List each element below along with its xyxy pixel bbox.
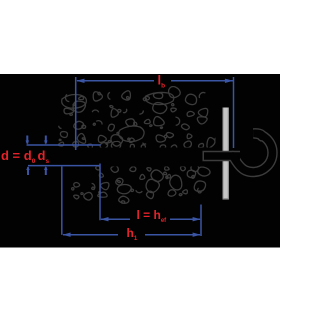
extension line hole bottom (x=61.8) — [61, 167, 63, 235]
anchor shaft (outlined) — [203, 151, 241, 161]
arrow h_ef right — [193, 217, 201, 221]
tick d0 upper — [26, 136, 28, 144]
svg-text:d = d0: d = d0 — [1, 148, 36, 165]
hole top edge line — [27, 144, 101, 146]
arrow d0 upper (down) — [26, 141, 30, 145]
hook (outlined) — [233, 133, 273, 172]
hole bottom edge line — [28, 165, 101, 167]
hook black core — [233, 133, 273, 172]
arrow h_ef left — [100, 217, 108, 221]
extension line left (anchor tip, x=75.7) — [75, 77, 77, 150]
arrow l_b left — [76, 79, 84, 83]
tick ds lower — [45, 167, 47, 175]
arrow ds lower (up) — [44, 166, 48, 170]
arrow h1 left — [63, 233, 71, 237]
arrow d0 lower (up) — [26, 166, 30, 170]
concrete aggregate texture (upper block) — [59, 86, 218, 149]
extension line embedment start (x=100) — [99, 164, 101, 221]
arrow l_b right — [225, 79, 233, 83]
arrow ds upper (down) — [44, 141, 48, 145]
blue arrowheads — [26, 79, 234, 237]
concrete aggregate texture (lower block) — [72, 164, 210, 203]
fixture plate — [223, 108, 229, 200]
blue dimension graphics — [27, 77, 234, 236]
tick ds upper — [45, 136, 47, 144]
dimension line h1 — [63, 234, 118, 236]
extension line right (hook tip, x=233.5) — [233, 77, 235, 148]
black image band — [0, 74, 280, 248]
extension line right shared (x=201) — [200, 205, 202, 237]
dimension line l_b — [77, 80, 154, 82]
arrow h1 right — [193, 233, 201, 237]
shaft black core — [204, 152, 240, 160]
dimension line h_ef — [101, 218, 130, 220]
tick d0 lower — [27, 167, 29, 175]
